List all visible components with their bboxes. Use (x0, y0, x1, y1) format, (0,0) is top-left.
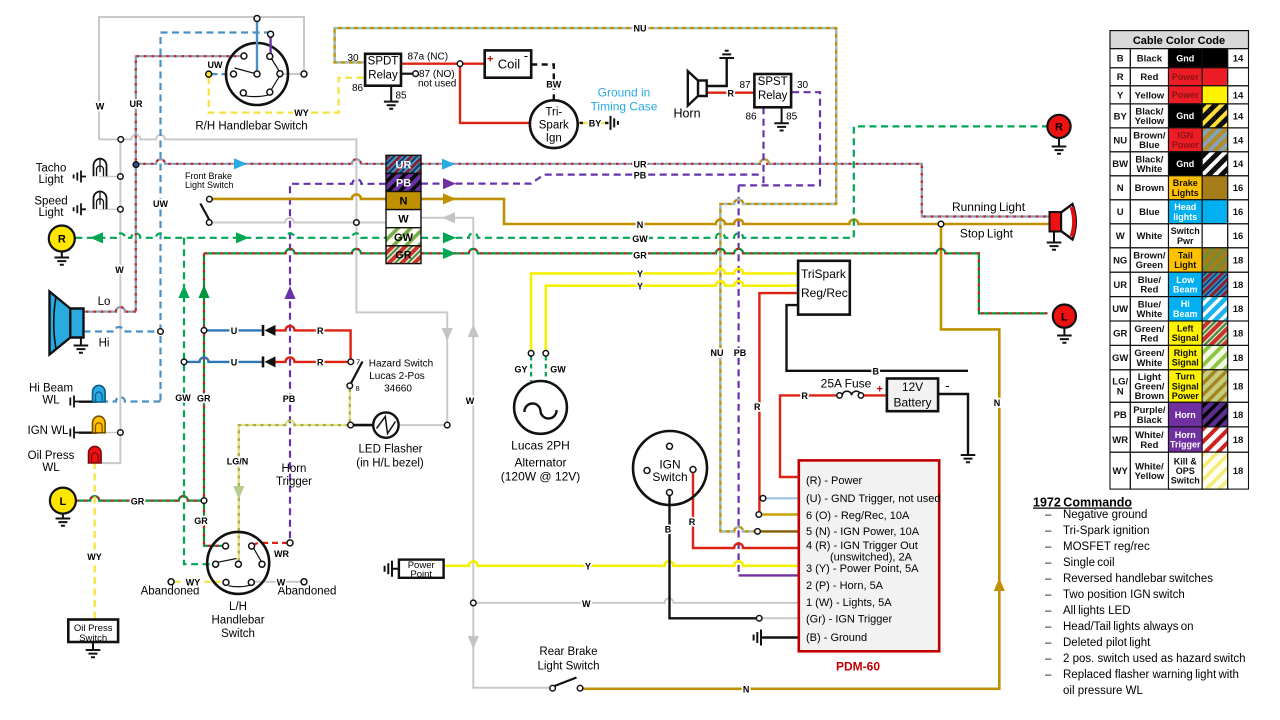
svg-text:Hi: Hi (1181, 299, 1190, 309)
svg-text:lights: lights (1173, 212, 1197, 222)
svg-text:–: – (1045, 509, 1052, 521)
svg-text:18: 18 (1233, 255, 1244, 266)
svg-text:Relay: Relay (758, 90, 788, 102)
PDM-60 box (799, 460, 939, 651)
svg-text:87a (NC): 87a (NC) (408, 52, 449, 63)
lucas alternator (514, 381, 567, 434)
svg-text:PB: PB (283, 394, 296, 404)
svg-text:14: 14 (1233, 54, 1244, 65)
svg-text:UW: UW (208, 60, 223, 70)
svg-text:Negative ground: Negative ground (1063, 509, 1147, 521)
svg-text:UW: UW (153, 199, 168, 209)
wire: Y alternator to reg/rec (1) (531, 269, 798, 353)
svg-text:Gnd: Gnd (1176, 111, 1194, 121)
svg-text:Cable Color Code: Cable Color Code (1133, 35, 1225, 47)
svg-text:+: + (487, 54, 493, 66)
svg-text:Red: Red (1140, 333, 1158, 344)
svg-text:not used: not used (418, 79, 456, 90)
rear brake light switch (550, 685, 556, 691)
svg-text:U: U (231, 358, 238, 368)
svg-text:Switch: Switch (221, 628, 255, 640)
wire: R diode row 2 to hazard pin 7 (276, 357, 348, 361)
wire: PB vertical to PDM-60 horn pin (737, 185, 739, 575)
svg-text:Ign: Ign (546, 133, 562, 145)
wire: UR vertical + headlight Lo (84, 56, 244, 311)
TriSpark reg/rec box (798, 261, 850, 315)
svg-text:OPS: OPS (1176, 466, 1195, 476)
svg-text:Brown: Brown (1135, 391, 1165, 402)
svg-text:Switch: Switch (1171, 476, 1200, 486)
wire: LG/N hazard to flasher and L/H switch (239, 389, 350, 561)
wire: PB main left + horn trigger vertical (290, 179, 386, 543)
svg-text:oil pressure WL: oil pressure WL (1063, 685, 1143, 697)
svg-text:Coil: Coil (498, 57, 521, 72)
svg-text:2 (P) - Horn, 5A: 2 (P) - Horn, 5A (806, 580, 884, 592)
wire: gold 6(O) stub (762, 513, 799, 515)
node: W on switched line (354, 220, 360, 226)
svg-text:B: B (665, 525, 672, 535)
svg-text:Speed: Speed (34, 196, 67, 208)
svg-text:R: R (1055, 122, 1063, 134)
svg-text:White: White (1136, 309, 1162, 320)
svg-text:GW: GW (632, 234, 648, 244)
svg-text:Stop Light: Stop Light (960, 227, 1014, 241)
svg-text:N: N (994, 398, 1001, 408)
svg-text:B: B (872, 366, 879, 376)
svg-text:White: White (1136, 231, 1162, 242)
svg-text:Yellow: Yellow (1135, 90, 1165, 101)
svg-text:Brake: Brake (1173, 178, 1198, 188)
svg-text:Single coil: Single coil (1063, 557, 1115, 569)
svg-text:Horn: Horn (673, 107, 700, 121)
svg-text:WY: WY (1113, 466, 1129, 477)
table body generated rows (1110, 49, 1249, 490)
wire: Y power point feed (444, 561, 799, 566)
svg-text:Y: Y (1117, 90, 1124, 101)
svg-text:–: – (1045, 541, 1052, 553)
R indicator right (1052, 138, 1067, 154)
svg-text:Left: Left (1177, 324, 1194, 334)
R indicator left (55, 252, 70, 265)
svg-text:Ground in: Ground in (598, 86, 651, 100)
ground above horn (719, 51, 734, 58)
svg-text:18: 18 (1233, 435, 1244, 446)
svg-text:8: 8 (356, 384, 360, 393)
svg-text:W: W (466, 396, 475, 406)
svg-text:NU: NU (711, 348, 724, 358)
svg-text:Light Switch: Light Switch (185, 180, 234, 190)
svg-text:4 (R) - IGN Trigger Out: 4 (R) - IGN Trigger Out (806, 540, 918, 552)
svg-text:GW: GW (175, 393, 191, 403)
svg-text:Timing Case: Timing Case (591, 100, 658, 114)
svg-text:PB: PB (734, 348, 747, 358)
svg-text:Beam: Beam (1173, 284, 1198, 294)
svg-text:SPDT: SPDT (368, 56, 399, 68)
svg-text:18: 18 (1233, 410, 1244, 421)
svg-text:Horn: Horn (282, 463, 307, 475)
svg-text:U: U (231, 326, 238, 336)
svg-text:BW: BW (1112, 159, 1128, 170)
svg-text:Power: Power (1172, 72, 1200, 82)
svg-text:NU: NU (1113, 135, 1127, 146)
svg-text:Tacho: Tacho (36, 163, 67, 175)
svg-text:14: 14 (1233, 90, 1244, 101)
wire: N main right to Stop Light (421, 199, 1050, 224)
node: N stop light junction (938, 221, 944, 227)
svg-text:R: R (1117, 72, 1124, 83)
svg-text:–: – (1045, 525, 1052, 537)
svg-text:N: N (743, 685, 750, 695)
svg-text:–: – (1045, 621, 1052, 633)
svg-text:N: N (637, 220, 644, 230)
running/stop light speaker (1047, 232, 1062, 250)
wire: W abandoned stub at L/H switch (254, 581, 301, 583)
svg-text:WR: WR (1112, 435, 1128, 446)
wire: black B IGN switch to Gr trigger (670, 496, 757, 619)
PDM terminals (760, 496, 766, 502)
svg-text:Tri-: Tri- (545, 107, 562, 119)
svg-text:LED Flasher: LED Flasher (359, 444, 423, 456)
tacho light bulb (94, 159, 107, 177)
connector block labels (394, 159, 414, 261)
svg-text:WY: WY (294, 108, 309, 118)
svg-text:White: White (1136, 164, 1162, 175)
wire: UR main right to Running Light (421, 159, 1050, 216)
wire: gray R/H switch outer link (281, 73, 301, 75)
svg-text:-: - (524, 48, 528, 63)
svg-text:Two position IGN switch: Two position IGN switch (1063, 589, 1185, 601)
headlight speaker (70, 309, 83, 338)
svg-text:30: 30 (797, 80, 809, 91)
svg-text:–: – (1045, 669, 1052, 681)
wire: R horn to SPST (707, 91, 755, 93)
svg-text:86: 86 (745, 112, 757, 123)
svg-text:Red: Red (1140, 285, 1158, 296)
svg-text:12V: 12V (902, 380, 923, 394)
svg-text:Power: Power (1172, 140, 1200, 150)
svg-text:GW: GW (1112, 353, 1128, 364)
svg-text:2 pos. switch used as hazard s: 2 pos. switch used as hazard switch (1063, 653, 1246, 665)
svg-text:W: W (115, 265, 124, 275)
svg-text:85: 85 (396, 90, 408, 101)
svg-text:–: – (1045, 637, 1052, 649)
svg-text:1972 Commando: 1972 Commando (1033, 496, 1132, 510)
svg-text:–: – (1045, 605, 1052, 617)
svg-text:14: 14 (1233, 159, 1244, 170)
svg-text:18: 18 (1233, 353, 1244, 364)
R/H handlebar switch (226, 43, 288, 105)
svg-text:Black: Black (1137, 54, 1163, 65)
diode row 1 (262, 325, 265, 336)
terminal: 87a node (457, 61, 463, 67)
svg-text:Rear Brake: Rear Brake (539, 646, 597, 658)
svg-text:GR: GR (395, 250, 412, 262)
speed light bulb (94, 192, 107, 210)
wire: gray IGN WL stub (104, 432, 120, 434)
wire: R reg/rec output to 6(O) (759, 293, 798, 511)
svg-text:Tail: Tail (1178, 250, 1193, 260)
node: speed (118, 207, 124, 213)
svg-text:Black: Black (1137, 415, 1163, 426)
svg-text:Spark: Spark (539, 120, 569, 132)
svg-text:Turn: Turn (1176, 372, 1195, 382)
wire: U diode row 1 (206, 329, 262, 331)
12V battery box (887, 379, 938, 412)
svg-text:IGN WL: IGN WL (28, 425, 69, 437)
hazard switch (348, 359, 354, 365)
svg-text:Tri-Spark ignition: Tri-Spark ignition (1063, 525, 1150, 537)
svg-text:Blue: Blue (1139, 140, 1160, 151)
svg-text:GR: GR (194, 516, 208, 526)
svg-text:Signal: Signal (1172, 333, 1199, 343)
svg-text:18: 18 (1233, 304, 1244, 315)
svg-text:U: U (1117, 207, 1124, 218)
svg-text:16: 16 (1233, 207, 1244, 218)
SPDT relay box (365, 54, 401, 86)
svg-text:Power: Power (1172, 90, 1200, 100)
svg-text:UR: UR (396, 159, 412, 171)
svg-text:GR: GR (633, 251, 647, 261)
svg-text:NG: NG (1113, 255, 1127, 266)
svg-text:R: R (801, 391, 808, 401)
terminal: 87 NO (413, 71, 419, 77)
wire: W switched-power left section (209, 218, 386, 222)
wire: gray speed stub (99, 208, 120, 210)
wire: black battery minus to ground (938, 394, 968, 455)
svg-text:UW: UW (1112, 304, 1128, 315)
wire: WY from R/H switch to SPDT 86 (209, 77, 365, 113)
L/H handlebar switch (207, 532, 269, 594)
svg-text:R: R (727, 88, 734, 98)
svg-text:Switch: Switch (1171, 226, 1200, 236)
wire: gray tacho stub (99, 176, 120, 178)
svg-text:18: 18 (1233, 280, 1244, 291)
NOTES: 1972 Commando (1033, 496, 1132, 510)
svg-text:(B) - Ground: (B) - Ground (806, 632, 867, 644)
svg-text:14: 14 (1233, 135, 1244, 146)
svg-text:R: R (317, 358, 324, 368)
wire: GR line to L indicator (76, 496, 204, 501)
wire: R IGN switch to PDM-60 trigger out (693, 473, 799, 549)
svg-text:PB: PB (634, 170, 647, 180)
wire: W lights feed to PDM-60 (476, 598, 799, 603)
wire: UW blue dashed main (103, 33, 271, 402)
wire: Y alternator to reg/rec (2) (546, 281, 798, 353)
svg-text:R: R (58, 234, 66, 246)
indicator letters (58, 122, 1068, 508)
svg-text:Kill &: Kill & (1174, 456, 1198, 466)
ground below battery (961, 455, 976, 462)
svg-text:87: 87 (739, 80, 751, 91)
svg-text:14: 14 (1233, 111, 1244, 122)
svg-text:Red: Red (1140, 72, 1158, 83)
svg-text:Alternator: Alternator (514, 456, 566, 470)
node: tacho (118, 174, 124, 180)
node: W at lights branch (471, 600, 477, 606)
svg-text:UR: UR (634, 160, 647, 170)
LED flasher (373, 412, 398, 437)
svg-text:GW: GW (394, 232, 414, 244)
svg-text:Replaced flasher warning light: Replaced flasher warning light with (1063, 669, 1239, 681)
svg-text:Yellow: Yellow (1135, 116, 1165, 127)
node: diode row 1 on GR vertical (201, 328, 207, 334)
svg-text:18: 18 (1233, 382, 1244, 393)
svg-text:3 (Y) - Power Point, 5A: 3 (Y) - Power Point, 5A (806, 563, 919, 575)
svg-text:–: – (1045, 653, 1052, 665)
svg-text:PB: PB (1114, 410, 1127, 421)
svg-text:Low: Low (1176, 275, 1195, 285)
svg-text:Oil Press: Oil Press (28, 450, 75, 462)
svg-text:(unswitched), 2A: (unswitched), 2A (830, 552, 913, 564)
svg-text:5 (N) - IGN Power, 10A: 5 (N) - IGN Power, 10A (806, 526, 920, 538)
front brake light switch (207, 196, 213, 202)
wire: gold hop arc on UR line (760, 159, 769, 164)
wire: R diode row 1 to hazard switch (276, 326, 351, 359)
svg-text:WR: WR (274, 549, 289, 559)
ground at BY (sideways) (611, 116, 618, 130)
svg-text:18: 18 (1233, 329, 1244, 340)
svg-text:Power: Power (1172, 391, 1200, 401)
svg-text:Head/Tail lights always on: Head/Tail lights always on (1063, 621, 1194, 633)
svg-text:Brown: Brown (1135, 183, 1165, 194)
svg-text:Reversed handlebar switches: Reversed handlebar switches (1063, 573, 1213, 585)
node: flasher right W (444, 422, 450, 428)
wire: gray warning-light column (102, 139, 120, 463)
wire: NU brown/blue loop (335, 28, 837, 531)
svg-text:W: W (1116, 231, 1125, 242)
wire: W right section + long vertical to rear brake (421, 218, 549, 688)
svg-text:–: – (1045, 589, 1052, 601)
ground below oil press switch (86, 642, 101, 657)
svg-text:Light Switch: Light Switch (537, 661, 599, 673)
R/H pins (231, 16, 308, 96)
svg-text:Gnd: Gnd (1176, 159, 1194, 169)
svg-text:N: N (1117, 183, 1124, 194)
fuse symbol (842, 391, 861, 395)
Hi Beam WL LED (70, 396, 79, 408)
svg-text:Horn: Horn (1175, 430, 1196, 440)
svg-text:Right: Right (1174, 348, 1197, 358)
svg-text:Lo: Lo (98, 296, 111, 308)
wire: R SPDT to coil (401, 63, 485, 65)
node: Hi line junction (158, 329, 164, 335)
svg-text:Point: Point (410, 569, 432, 580)
svg-text:25A Fuse: 25A Fuse (821, 377, 872, 391)
svg-text:IGN: IGN (1177, 130, 1193, 140)
svg-text:(U) - GND Trigger, not used: (U) - GND Trigger, not used (806, 493, 941, 505)
wire: WR red dashed L/H to horn trigger (253, 543, 288, 546)
svg-text:All lights LED: All lights LED (1063, 605, 1131, 617)
IGN WL LED (70, 427, 79, 439)
svg-text:85: 85 (786, 112, 798, 123)
connector block UR/PB/N/W/GW/GR (386, 155, 421, 263)
svg-text:1 (W) - Lights, 5A: 1 (W) - Lights, 5A (806, 597, 892, 609)
ground left of power point (385, 561, 399, 577)
SPST relay box (754, 74, 791, 107)
svg-text:R: R (317, 326, 324, 336)
svg-text:86: 86 (352, 83, 364, 94)
svg-text:(R) - Power: (R) - Power (806, 475, 863, 487)
svg-text:Hazard Switch: Hazard Switch (369, 359, 433, 370)
svg-text:(120W @ 12V): (120W @ 12V) (501, 470, 581, 484)
node: IGN WL (118, 430, 124, 436)
wire: black B reg/rec to battery minus (787, 305, 969, 371)
wire: black B ground stub of PDM-60 (763, 636, 799, 638)
svg-text:Hi: Hi (99, 338, 110, 350)
svg-text:PDM-60: PDM-60 (836, 660, 880, 674)
svg-text:BY: BY (589, 119, 602, 129)
Oil Press WL LED (89, 446, 102, 463)
L indicator right (1057, 328, 1072, 343)
wire: R coil feed down to Tri-Spark (460, 67, 530, 123)
wire: GR main (204, 249, 1048, 314)
wire: black horn ground link (707, 59, 727, 86)
svg-text:Beam: Beam (1173, 309, 1198, 319)
svg-text:UR: UR (130, 99, 143, 109)
wire: gray W frame top-left (99, 17, 304, 139)
svg-text:Pwr: Pwr (1177, 236, 1194, 246)
svg-text:Trigger: Trigger (276, 476, 312, 488)
IGN switch (633, 431, 707, 505)
svg-text:GY: GY (514, 364, 527, 374)
svg-text:30: 30 (347, 53, 359, 64)
svg-text:Running Light: Running Light (952, 200, 1026, 214)
arrows on trunk wires (90, 158, 1005, 649)
svg-text:Light: Light (39, 174, 65, 186)
svg-text:W: W (582, 599, 591, 609)
horn speaker (688, 71, 707, 106)
svg-text:BY: BY (1114, 111, 1128, 122)
svg-text:L/H: L/H (229, 601, 247, 613)
svg-text:R: R (689, 517, 696, 527)
wire: WY abandoned stub at L/H switch (175, 581, 223, 583)
svg-text:GW: GW (550, 364, 566, 374)
L indicator left (56, 513, 71, 526)
svg-text:GR: GR (197, 394, 211, 404)
svg-text:Lucas 2PH: Lucas 2PH (511, 439, 570, 453)
wire: BW coil to tri-spark (531, 65, 554, 101)
wire: GY GW alternator stubs (531, 356, 546, 381)
svg-text:GR: GR (131, 497, 145, 507)
svg-text:Signal: Signal (1172, 381, 1199, 391)
svg-text:Signal: Signal (1172, 358, 1199, 368)
svg-text:GR: GR (1113, 329, 1127, 340)
svg-text:N: N (1117, 386, 1124, 397)
svg-text:Switch: Switch (79, 633, 107, 644)
svg-text:PB: PB (396, 178, 411, 190)
ground left of speed (74, 203, 86, 215)
svg-text:NU: NU (634, 24, 647, 34)
svg-text:TriSpark: TriSpark (801, 267, 847, 281)
ground below SPST 85 (774, 107, 789, 130)
svg-text:B: B (1117, 54, 1124, 65)
svg-text:Y: Y (637, 269, 643, 279)
svg-text:Switch: Switch (652, 470, 687, 484)
svg-text:Reg/Rec: Reg/Rec (801, 286, 848, 300)
svg-text:6 (O) - Reg/Rec, 10A: 6 (O) - Reg/Rec, 10A (806, 510, 910, 522)
svg-text:7: 7 (356, 358, 360, 367)
node: UR junction (133, 162, 139, 168)
PDM-60 pin list (806, 475, 941, 644)
wire: N branch to rear brake light switch (582, 224, 999, 689)
svg-text:R/H Handlebar Switch: R/H Handlebar Switch (195, 121, 307, 133)
svg-text:16: 16 (1233, 183, 1244, 194)
svg-text:Abandoned: Abandoned (278, 586, 337, 598)
oil press switch box (68, 620, 118, 643)
svg-text:Deleted pilot light: Deleted pilot light (1063, 637, 1151, 649)
wire: U diode row 2 (186, 357, 262, 362)
wire: PB main right with jog to SPST 86 and 30 (421, 92, 820, 185)
